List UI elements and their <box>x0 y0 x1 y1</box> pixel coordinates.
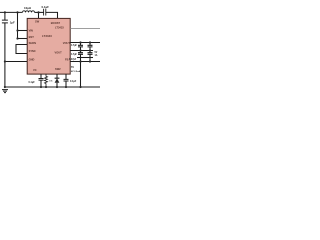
wire rail B <box>70 50 93 52</box>
wire rail C <box>77 57 93 59</box>
svg-text:0.1µF: 0.1µF <box>29 81 36 84</box>
svg-text:VC: VC <box>33 68 37 72</box>
diode D1 catch <box>55 74 60 87</box>
node gnd6 <box>79 86 81 88</box>
wire to VIN pin <box>18 30 27 32</box>
node B1 <box>79 49 81 51</box>
node B2 <box>89 49 91 51</box>
wire VIN top rail <box>0 11 23 13</box>
node A1 <box>79 41 81 43</box>
node bus-pin2 <box>16 37 18 39</box>
capacitor C5 4.7uF <box>78 51 83 58</box>
wire C2 to BOOST pin <box>46 12 58 18</box>
node SW junction <box>37 11 39 13</box>
node D1j <box>79 60 81 62</box>
node gnd3 <box>45 86 47 88</box>
svg-text:4.7µF: 4.7µF <box>71 53 78 56</box>
wire VOUT rail A <box>70 42 100 44</box>
svg-text:AT 2.5mA: AT 2.5mA <box>71 70 81 73</box>
svg-text:SHDN: SHDN <box>29 41 36 45</box>
svg-text:VOUT: VOUT <box>63 41 71 45</box>
wire to pin2 <box>18 38 28 40</box>
svg-text:5V: 5V <box>95 52 98 54</box>
wire L1 to C2 <box>35 11 44 13</box>
svg-text:BST: BST <box>29 35 35 39</box>
svg-text:VOUT: VOUT <box>55 50 63 54</box>
svg-text:SYNC: SYNC <box>29 49 36 53</box>
wire SYNC loop <box>16 45 27 54</box>
node gnd-pin junction <box>4 60 6 62</box>
svg-text:0.47µF: 0.47µF <box>69 58 77 61</box>
op-amp U1 LT3433 IC body <box>27 18 70 74</box>
svg-text:SW2: SW2 <box>55 67 61 71</box>
svg-text:GND: GND <box>29 57 35 61</box>
svg-text:10µH: 10µH <box>24 6 31 10</box>
node A2 <box>89 41 91 43</box>
node D2j <box>89 60 91 62</box>
svg-text:4.7µF: 4.7µF <box>71 44 78 47</box>
node bus-pin1 <box>16 29 18 31</box>
wire GND pin <box>5 61 27 63</box>
wire VIN bus vertical <box>17 12 19 38</box>
wire railC to railD <box>81 58 91 62</box>
node gnd2 <box>40 86 42 88</box>
svg-text:VIN: VIN <box>29 28 33 32</box>
wire NC gray pin <box>70 28 100 30</box>
svg-text:LT3433: LT3433 <box>55 25 64 29</box>
svg-text:1µF: 1µF <box>10 20 15 24</box>
node gnd4 <box>56 86 58 88</box>
node gnd1 <box>4 86 6 88</box>
svg-text:0.1µF: 0.1µF <box>70 80 77 83</box>
node gnd5 <box>65 86 67 88</box>
capacitor C7 0.1uF <box>64 74 69 87</box>
resistor R1 <box>45 74 48 87</box>
ground <box>2 90 8 93</box>
wire railD to ground rail <box>80 62 82 88</box>
capacitor C2 0.1uF <box>44 9 46 16</box>
svg-text:10k: 10k <box>49 81 53 83</box>
capacitor C4 <box>88 43 93 51</box>
inductor L1 <box>23 11 35 13</box>
svg-text:SW: SW <box>35 20 40 24</box>
capacitor C1 1uF <box>2 12 8 23</box>
svg-text:5V: 5V <box>71 66 74 69</box>
capacitor C3 4.7uF <box>78 43 83 51</box>
svg-text:BOOST: BOOST <box>51 21 61 25</box>
wire C1 to ground bus <box>4 23 6 87</box>
node VIN-C1 junction <box>4 11 6 13</box>
svg-text:1A: 1A <box>95 54 98 57</box>
wire FB rail D <box>70 61 100 63</box>
capacitor C6 <box>88 51 93 58</box>
svg-text:LT3433: LT3433 <box>42 34 52 38</box>
wire SW pin drop <box>38 12 40 18</box>
svg-text:0.1µF: 0.1µF <box>42 5 50 9</box>
wire ground rail <box>5 86 100 88</box>
node VIN bus junction <box>16 11 18 13</box>
wire VC cap drop <box>39 74 44 87</box>
